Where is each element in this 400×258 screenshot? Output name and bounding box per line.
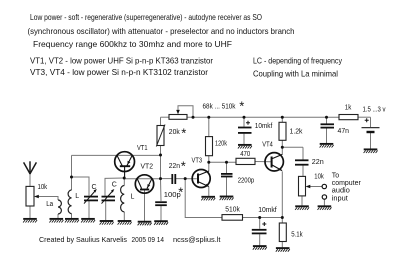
svg-text:2005 09 14: 2005 09 14 [132,235,165,244]
svg-text:*: * [239,98,244,113]
svg-text:5.1k: 5.1k [291,232,303,239]
svg-text:(synchronous oscillator) with: (synchronous oscillator) with attenuator… [28,26,295,36]
svg-text:68k ... 510k: 68k ... 510k [203,104,236,111]
svg-text:47n: 47n [338,128,350,135]
svg-text:ncss@splius.lt: ncss@splius.lt [173,235,221,244]
svg-text:LC - depending of frequency: LC - depending of frequency [253,56,343,66]
svg-text:computer: computer [332,180,362,187]
svg-text:10mkf: 10mkf [258,207,277,214]
svg-text:input: input [332,196,348,203]
svg-text:1.5 ...3 v: 1.5 ...3 v [363,107,386,114]
svg-text:Created by Saulius Karvelis: Created by Saulius Karvelis [39,235,127,244]
svg-text:120k: 120k [215,141,227,148]
svg-text:To: To [332,173,340,180]
svg-text:470: 470 [240,151,250,158]
svg-text:VT4: VT4 [262,141,273,148]
svg-text:L: L [131,194,135,201]
svg-text:510k: 510k [225,206,240,213]
svg-text:C: C [112,182,117,189]
svg-text:*: * [178,184,183,199]
svg-text:La: La [46,201,53,208]
svg-text:Coupling with La minimal: Coupling with La minimal [253,68,338,78]
svg-text:22n: 22n [169,163,180,170]
svg-text:VT1, VT2 - low power UHF Si: VT1, VT2 - low power UHF Si p-n-p KT363 … [30,56,213,66]
svg-text:10k: 10k [38,184,48,191]
svg-text:audio: audio [332,188,350,195]
svg-text:10k: 10k [314,173,324,180]
svg-text:1k: 1k [345,104,352,111]
svg-text:*: * [181,158,186,173]
svg-text:10mkf: 10mkf [255,123,273,130]
svg-text:VT3: VT3 [192,157,203,164]
svg-text:VT3, VT4 - low power Si n-p-: VT3, VT4 - low power Si n-p-n KT3102 tra… [30,67,208,77]
svg-text:22n: 22n [312,159,324,166]
svg-text:VT2: VT2 [141,163,154,170]
svg-text:1.2k: 1.2k [290,129,303,136]
svg-text:L: L [75,193,79,200]
svg-text:20k: 20k [169,129,180,136]
svg-text:VT1: VT1 [137,145,148,152]
svg-text:Frequency range 600khz to 30mh: Frequency range 600khz to 30mhz and more… [33,39,232,49]
svg-text:2200p: 2200p [238,177,255,184]
svg-text:Low power - soft - regenerativ: Low power - soft - regenerative (superre… [30,12,262,22]
svg-text:*: * [181,125,186,140]
